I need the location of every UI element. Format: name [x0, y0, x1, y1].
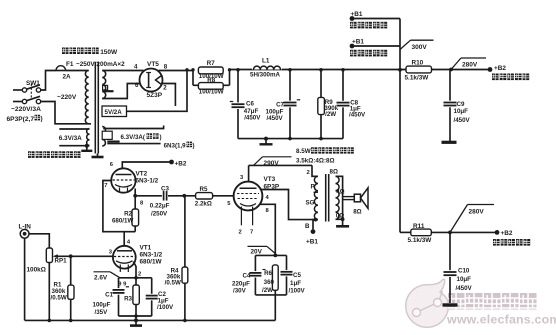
- svg-text:/35V: /35V: [95, 309, 109, 316]
- resistor R8: [193, 84, 198, 86]
- output transformer secondary winding: [336, 176, 340, 219]
- svg-text:VT3: VT3: [264, 176, 276, 183]
- switch SW1 pole 1: [13, 89, 22, 91]
- svg-text:/450V: /450V: [349, 111, 366, 118]
- VT1 cathode top bus: [119, 277, 152, 279]
- svg-text:P: P: [311, 183, 315, 190]
- tube VT2 envelope: [111, 168, 135, 192]
- svg-text:290V: 290V: [264, 160, 280, 167]
- svg-text:8.5W: 8.5W: [296, 148, 311, 155]
- tube VT2 plate bar: [116, 174, 132, 176]
- transformer T1 HV secondary winding: [102, 71, 106, 99]
- svg-text:/100V: /100V: [157, 304, 174, 311]
- svg-text:0.22μF: 0.22μF: [150, 202, 170, 209]
- svg-text:+B1: +B1: [306, 239, 318, 246]
- ground C9: [442, 141, 457, 144]
- callout 20V: [248, 245, 268, 247]
- ground VT1 cathode: [134, 318, 138, 322]
- cathode network top bus: [255, 254, 286, 256]
- svg-text:6P3P(2,7: 6P3P(2,7: [7, 116, 35, 123]
- cap C4: [254, 255, 256, 295]
- wire primary top: [312, 165, 318, 176]
- svg-text:/100V: /100V: [289, 288, 306, 295]
- svg-text:5H/300mA: 5H/300mA: [250, 71, 280, 78]
- svg-text:C9: C9: [457, 101, 465, 108]
- tube VT1 plate bar: [117, 250, 132, 252]
- svg-text:~220V: ~220V: [57, 94, 77, 101]
- wire VT1 cathode to bus: [133, 262, 136, 278]
- svg-text:): ): [41, 116, 43, 123]
- svg-text:VT2: VT2: [136, 170, 148, 177]
- tube VT1 envelope: [113, 246, 136, 269]
- svg-text:100μF: 100μF: [93, 301, 111, 308]
- tube VT3 heater legs: [240, 207, 242, 226]
- VT1 cathode bottom bus: [119, 315, 152, 317]
- cap C8: [341, 68, 345, 72]
- transformer T1 primary winding: [85, 71, 88, 124]
- callout 290V: [254, 157, 263, 166]
- tube VT3 cathode: [240, 204, 256, 207]
- wire VT3 cathode pin8: [260, 204, 275, 255]
- svg-text:10μF: 10μF: [454, 108, 469, 115]
- callout 2.6V: [94, 271, 111, 273]
- svg-text:2.2kΩ: 2.2kΩ: [195, 201, 212, 208]
- grid resistor R4: [184, 196, 186, 267]
- output transformer primary winding: [314, 176, 318, 219]
- svg-text:/0.5W: /0.5W: [51, 294, 67, 301]
- svg-text:/450V: /450V: [244, 115, 261, 122]
- ground filter: [265, 139, 267, 145]
- svg-text:C1: C1: [105, 291, 113, 298]
- resistor R1: [70, 256, 72, 285]
- cap C10: [449, 232, 451, 303]
- wire VT3 screen pin4 to B: [261, 190, 316, 220]
- cap C5: [286, 255, 288, 295]
- svg-text:+B2: +B2: [494, 65, 506, 72]
- svg-text:2A: 2A: [63, 74, 72, 81]
- svg-text:10μF: 10μF: [457, 276, 472, 283]
- svg-text:www.elecfans.com: www.elecfans.com: [446, 313, 556, 327]
- svg-text:/30V: /30V: [233, 287, 247, 294]
- ground core: [97, 154, 99, 158]
- tube VT2 cathode: [115, 185, 132, 188]
- terminal +B2 left channel: [432, 69, 491, 71]
- svg-text:R2: R2: [124, 210, 132, 217]
- svg-text:F1: F1: [66, 61, 74, 68]
- terminal +B2 VT2 plate: [122, 162, 171, 169]
- transformer 5V/2A winding box: [102, 106, 127, 117]
- svg-text:150W: 150W: [100, 49, 118, 56]
- wire jack ground: [24, 238, 26, 321]
- svg-text:R5: R5: [200, 186, 208, 193]
- svg-text:8Ω: 8Ω: [330, 169, 338, 176]
- bottom ground rail: [25, 319, 276, 321]
- switch SW1 gang link dashed: [30, 84, 32, 99]
- wire C3 to R5: [168, 195, 196, 197]
- tube VT1 heater legs: [120, 265, 128, 273]
- svg-text:2: 2: [239, 230, 242, 236]
- svg-text:+B2: +B2: [175, 160, 187, 167]
- svg-text:6N3-1/2: 6N3-1/2: [136, 177, 159, 184]
- tube VT3 plate bar: [240, 187, 257, 189]
- wire to speaker: [343, 196, 355, 198]
- wire VT1 plate riser: [123, 232, 125, 246]
- wire VT5 pin2 to 5V winding: [162, 84, 175, 107]
- callout 280V upper: [451, 58, 461, 70]
- resistor R10: [406, 66, 432, 73]
- ground C10: [443, 303, 458, 306]
- svg-text:5V/2A: 5V/2A: [105, 109, 123, 116]
- label power transformer 150W title: [62, 48, 69, 55]
- secondary right bus: [336, 176, 343, 219]
- terminal +B1 right channel: [352, 45, 400, 47]
- watermark text dianzifashaoyou: [448, 293, 465, 310]
- svg-text:R10: R10: [412, 59, 424, 66]
- cathode network bottom bus: [255, 294, 286, 296]
- RP1 wiper arrow: [56, 255, 71, 257]
- wire 6.3V left top: [59, 128, 89, 130]
- ground main chassis: [86, 146, 88, 151]
- 6.3V right winding tap: [102, 131, 112, 139]
- wire R7R8 left junction: [192, 70, 194, 86]
- wire 6.3V right top: [103, 126, 163, 129]
- wire filter ground rail: [238, 138, 343, 140]
- svg-text:C7: C7: [276, 101, 284, 108]
- resistor R11: [411, 229, 432, 236]
- svg-text:2.6V: 2.6V: [94, 274, 108, 281]
- wire +B1 riser: [399, 19, 401, 233]
- tube VT5 filament chevron: [156, 76, 162, 85]
- svg-text:680/1W: 680/1W: [112, 217, 133, 224]
- wire fuse to primary top: [66, 70, 89, 72]
- tube VT2 grid dashed: [113, 179, 135, 181]
- svg-text:+B1: +B1: [352, 39, 364, 46]
- svg-text:100/10W: 100/10W: [199, 89, 224, 96]
- tube VT3 grids dashed: [237, 193, 259, 195]
- transformer 6.3V right winding: [102, 127, 105, 147]
- node after R11: [431, 231, 497, 233]
- svg-text:C3: C3: [161, 185, 169, 192]
- transformer 6.3V left winding: [87, 129, 90, 146]
- callout 280V lower: [450, 205, 468, 233]
- svg-text:R3: R3: [124, 295, 132, 302]
- svg-text:~250V/200mA×2: ~250V/200mA×2: [76, 61, 125, 68]
- svg-text:C10: C10: [458, 268, 470, 275]
- svg-text:6: 6: [135, 82, 139, 89]
- callout 300V: [400, 40, 411, 49]
- svg-text:+B2: +B2: [501, 230, 513, 237]
- cap C2: [151, 278, 153, 316]
- svg-text:SG: SG: [306, 199, 315, 206]
- tube VT5 plate bar: [148, 73, 150, 88]
- svg-text:/2W: /2W: [262, 287, 273, 294]
- svg-text:3.5kΩ:4Ω:8Ω: 3.5kΩ:4Ω:8Ω: [296, 158, 335, 165]
- wire HV top to VT5 pin4: [102, 70, 143, 72]
- signal wire VT2 cathode to C3: [135, 195, 162, 197]
- ground secondary: [341, 217, 345, 221]
- wire 6.3V left bottom: [59, 145, 89, 147]
- filter cap C7: [288, 68, 292, 72]
- svg-text:R7: R7: [207, 60, 215, 67]
- terminal +B1 output: [311, 229, 316, 234]
- wire VT2 cathode down: [134, 189, 136, 197]
- wire wiper to VT1 grid: [69, 254, 73, 258]
- svg-text:6N3(1,9: 6N3(1,9: [164, 142, 187, 149]
- svg-text:5.1k/3W: 5.1k/3W: [405, 74, 430, 81]
- wire VT5 pin8 to R7R8: [159, 70, 194, 72]
- svg-text:5.1k/3W: 5.1k/3W: [408, 237, 433, 244]
- svg-text:360: 360: [264, 279, 275, 286]
- svg-text:C6: C6: [246, 100, 254, 107]
- svg-text:7: 7: [104, 183, 107, 189]
- svg-text:8: 8: [164, 64, 168, 71]
- svg-text:/450V: /450V: [267, 115, 284, 122]
- cap C1: [118, 278, 120, 316]
- junction 6.3V ground: [85, 144, 89, 148]
- wire RP1 bottom: [48, 263, 50, 321]
- svg-text:/450V: /450V: [454, 117, 471, 124]
- svg-text:20V: 20V: [251, 249, 263, 256]
- svg-text:/250V: /250V: [151, 210, 168, 217]
- svg-text:4Ω: 4Ω: [336, 188, 344, 195]
- tube VT1 cathode: [116, 261, 133, 263]
- speaker: [354, 194, 360, 202]
- wire network to ground rail: [274, 295, 276, 321]
- wire R11 branch: [400, 231, 411, 233]
- tube VT5 envelope: [140, 69, 163, 92]
- svg-text:L1: L1: [262, 58, 270, 65]
- svg-text:/2W: /2W: [325, 111, 336, 118]
- tube VT3 envelope: [234, 182, 263, 211]
- wire 290V plate line: [249, 164, 312, 166]
- wire jack to RP1: [29, 234, 50, 248]
- resistor R5: [196, 193, 213, 199]
- cap C3: [162, 191, 168, 201]
- svg-text:2: 2: [307, 170, 310, 176]
- transformer T1 core: [94, 62, 96, 154]
- svg-text:220μF: 220μF: [232, 280, 250, 287]
- bleeder resistor R9: [319, 68, 323, 72]
- output transformer core: [325, 174, 327, 222]
- svg-text:/0.5W: /0.5W: [165, 280, 181, 287]
- svg-text:/450V: /450V: [456, 285, 473, 292]
- svg-text:): ): [193, 142, 195, 149]
- potentiometer RP1: [46, 248, 52, 263]
- SG tap: [314, 191, 319, 193]
- svg-text:5Z3P: 5Z3P: [147, 92, 163, 99]
- watermark elecfans logo: [406, 279, 449, 327]
- junction screen to B wire: [314, 218, 318, 222]
- resistor R7: [198, 67, 223, 74]
- cap C9: [449, 70, 451, 142]
- svg-text:7: 7: [250, 230, 253, 236]
- wire VT2 grid loop to VT1 plate node: [103, 181, 135, 232]
- wire main B+ rail: [230, 69, 407, 71]
- svg-text:6.3V/3A(: 6.3V/3A(: [121, 134, 146, 141]
- svg-text:100kΩ: 100kΩ: [27, 267, 46, 274]
- svg-text:R8: R8: [207, 77, 215, 84]
- svg-text:4: 4: [134, 64, 138, 71]
- node after R10: [449, 68, 453, 72]
- svg-text:2: 2: [138, 271, 141, 277]
- choke L1: [252, 63, 282, 70]
- svg-text:6.3V/3A: 6.3V/3A: [59, 135, 82, 142]
- svg-text:2: 2: [163, 85, 167, 92]
- svg-text:VT5: VT5: [147, 61, 159, 68]
- svg-text:VT1: VT1: [140, 244, 152, 251]
- wire R7R8 right junction: [229, 70, 231, 86]
- svg-text:B: B: [305, 223, 310, 230]
- HV center tap: [103, 85, 108, 90]
- svg-text:RP1: RP1: [55, 258, 68, 265]
- wire bus to rail: [135, 316, 137, 320]
- filter cap C6: [236, 68, 240, 72]
- svg-text:C4: C4: [242, 272, 250, 279]
- terminal +B1 left channel: [352, 18, 400, 20]
- wire 6.3V right bottom: [107, 143, 160, 145]
- resistor R6: [272, 265, 278, 290]
- svg-text:680/1W: 680/1W: [140, 258, 163, 265]
- svg-text:R6: R6: [264, 270, 272, 277]
- wire switch pole1 to fuse: [41, 71, 56, 91]
- svg-text:): ): [159, 134, 161, 141]
- terminal +B2 right channel: [495, 230, 500, 235]
- wire primary bottom to +B1: [313, 220, 318, 230]
- svg-text:+B1: +B1: [351, 11, 363, 18]
- svg-text:R11: R11: [413, 223, 425, 230]
- label whole machine ground point: [28, 151, 35, 158]
- svg-text:280V: 280V: [462, 61, 478, 68]
- switch SW1 pole 2: [13, 101, 22, 103]
- wire VT3 plate riser: [248, 165, 250, 181]
- wire HV bottom to VT5 pin6: [102, 84, 140, 99]
- svg-text:1μF: 1μF: [290, 280, 301, 287]
- svg-text:280V: 280V: [469, 209, 485, 216]
- wire R5 to VT3 grid: [213, 195, 234, 197]
- svg-text:6N3-1/2: 6N3-1/2: [140, 251, 163, 258]
- secondary 4 ohm tap: [336, 190, 340, 192]
- resistor R2: [134, 196, 136, 209]
- fuse F1: [56, 66, 66, 71]
- svg-text:8Ω: 8Ω: [353, 209, 361, 216]
- svg-text:C5: C5: [293, 272, 301, 279]
- tube VT1 grid dashed: [114, 256, 135, 258]
- wire switch pole2 to primary bottom: [41, 102, 91, 124]
- node rail at 187: [185, 68, 188, 71]
- svg-text:300V: 300V: [412, 44, 428, 51]
- svg-text:~220V/3A: ~220V/3A: [11, 106, 41, 113]
- resistor R3: [135, 278, 137, 285]
- wire 5V winding to B+ rail: [127, 70, 188, 112]
